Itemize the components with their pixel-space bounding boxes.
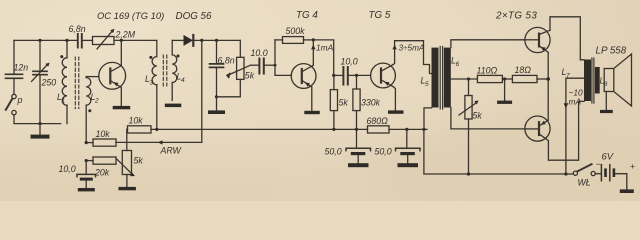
svg-text:4: 4 <box>181 77 185 84</box>
transistor TG4 <box>291 40 316 111</box>
transistor TG53 lower <box>525 116 550 141</box>
resistor 5k (thermistor, bias) <box>459 79 482 174</box>
svg-text:DOG 56: DOG 56 <box>176 11 212 22</box>
svg-text:3: 3 <box>150 80 154 87</box>
wire diode to detector <box>195 39 241 41</box>
svg-text:5k: 5k <box>134 156 144 166</box>
capacitor 6,8n (series, top rail) <box>69 24 86 48</box>
ground (10,0 cap) <box>78 188 95 191</box>
label TG 4 <box>296 10 318 21</box>
node base feed <box>274 64 277 67</box>
svg-text:5: 5 <box>425 81 429 88</box>
node 110/18 <box>503 77 506 80</box>
node bus/L3 <box>155 128 158 131</box>
node 250 / rail <box>38 39 41 42</box>
node L5 bottom / supply drop <box>422 128 425 131</box>
resistor 330k <box>353 75 381 129</box>
resistor 10k (upper, in supply bus) <box>127 116 157 134</box>
transformer T2 winding L5 <box>421 48 439 108</box>
transformer L7 primary <box>562 60 592 102</box>
current arrow 3÷5mA <box>392 44 425 53</box>
switch WŁ <box>573 164 595 187</box>
diode DOG 56 <box>176 11 212 46</box>
node thermistor / bottom bus <box>467 172 470 175</box>
core L7 <box>592 58 594 103</box>
node 50,0 #2 <box>405 128 408 131</box>
MIDDLE AND RIGHT SECTIONS INSERTED BELOW <box>155 10 573 174</box>
wire TG4 collector top to coupling <box>313 40 333 76</box>
wire L6 tap bias row <box>451 78 478 80</box>
ground (5k pot) <box>118 187 135 190</box>
svg-text:OC 169 (TG 10): OC 169 (TG 10) <box>97 10 164 21</box>
label 2×TG 53 <box>495 11 537 22</box>
svg-text:mA: mA <box>569 97 582 107</box>
ground (Q1 emitter) <box>113 106 131 109</box>
capacitor 10.0 (coupling to TG4) <box>251 48 276 74</box>
wire L2 to Q1 base <box>86 76 99 78</box>
svg-text:330k: 330k <box>361 98 381 108</box>
loudspeaker LP 558 <box>596 46 632 110</box>
transformer T2 winding L6 <box>444 48 460 108</box>
center tap wire + current arrow ~10mA <box>564 78 584 174</box>
svg-text:12n: 12n <box>14 63 29 73</box>
node 330k/base TG5 <box>355 74 358 77</box>
wire L5 bottom to bus <box>424 108 432 129</box>
svg-text:−: − <box>596 159 601 169</box>
svg-text:500k: 500k <box>286 26 306 36</box>
node 330k <box>355 128 358 131</box>
svg-text:110Ω: 110Ω <box>477 66 498 76</box>
inductor L2 (coupling winding) <box>86 77 99 143</box>
ground (speaker) <box>600 110 613 113</box>
svg-text:5k: 5k <box>245 71 255 81</box>
wire 10k-left down to 5k pot <box>126 129 128 150</box>
ground (tuning circuit) <box>31 124 50 139</box>
node L2/10k <box>85 141 88 144</box>
ferrite rod (dashed core) <box>75 57 79 109</box>
wire supply drop to bottom bus <box>424 129 573 174</box>
node center tap / bus <box>564 172 567 175</box>
inductor L4 <box>172 40 185 100</box>
svg-text:TG 5: TG 5 <box>369 10 391 21</box>
svg-text:2×TG 53: 2×TG 53 <box>495 11 537 22</box>
wire TG5 collector to L5 <box>395 41 432 74</box>
transformer L8 secondary <box>595 67 608 94</box>
svg-text:5k: 5k <box>473 111 483 121</box>
ground (TG5 emitter) <box>388 110 404 113</box>
resistor 5k (volume/regen pot, vertical) <box>117 151 144 187</box>
wire switch to bottom bus <box>14 115 61 124</box>
node thermistor <box>467 77 470 80</box>
ground (L4) <box>165 104 182 108</box>
svg-text:3÷5mA: 3÷5mA <box>399 44 425 53</box>
inductor L3 <box>145 40 157 129</box>
svg-text:TG 4: TG 4 <box>296 10 318 21</box>
battery 6V <box>595 151 635 190</box>
capacitor 6,8n (detector filter) <box>210 40 235 110</box>
svg-text:6V: 6V <box>602 151 614 162</box>
wire L4 top to diode <box>172 39 183 41</box>
svg-text:6,8n: 6,8n <box>69 24 86 34</box>
node Q1 collector / rail <box>120 39 123 42</box>
svg-text:250: 250 <box>41 78 57 88</box>
svg-text:680Ω: 680Ω <box>367 116 389 126</box>
svg-text:50,0: 50,0 <box>325 147 342 157</box>
label OC 169 (TG 10) <box>97 10 164 21</box>
transistor TG5 <box>371 41 396 111</box>
capacitor 50,0 (second) <box>375 129 421 163</box>
resistor 18Ω <box>512 65 548 83</box>
wire to TG4 base <box>275 40 292 76</box>
svg-text:6,8n: 6,8n <box>218 56 235 66</box>
current arrow 1mA <box>311 43 334 53</box>
node 6,8n <box>215 39 218 42</box>
node detector <box>215 95 218 98</box>
svg-text:10k: 10k <box>96 129 111 139</box>
wire lower collector to L7 bottom <box>548 101 584 160</box>
svg-text:1: 1 <box>62 98 66 105</box>
capacitor 250 (variable tuning) <box>32 40 57 123</box>
node 500k/collector <box>312 38 315 41</box>
ground (battery) <box>620 189 634 193</box>
inductor L1 (antenna coil) <box>57 40 67 123</box>
wire L6 top to upper base <box>451 40 525 48</box>
svg-text:20k: 20k <box>94 168 110 178</box>
node TG4 collector / 5k / cap <box>332 74 335 77</box>
svg-text:p: p <box>17 95 23 105</box>
label TG 5 <box>369 10 391 21</box>
resistor 10k (lower, AGC) <box>86 129 116 146</box>
resistor 680Ω (decoupling) <box>367 116 428 133</box>
ground (50,0 second) <box>398 163 419 167</box>
ground (bias row) <box>497 79 512 104</box>
svg-text:LP 558: LP 558 <box>596 46 627 57</box>
resistor 5k (volume pot) <box>217 40 255 96</box>
ground (50,0 first) <box>348 163 369 167</box>
transistor TG53 upper <box>525 27 550 52</box>
capacitor 12n <box>6 63 29 79</box>
resistor 20k <box>86 157 116 178</box>
core T2 <box>440 47 442 110</box>
wire L6 bottom to lower base <box>451 108 525 129</box>
capacitor 10,0 (coupling TG4-TG5) <box>334 56 371 84</box>
svg-text:6: 6 <box>456 61 460 68</box>
wire <box>82 39 92 41</box>
resistor 500k (bias) <box>275 26 313 43</box>
node 20k <box>85 159 88 162</box>
node ARW takeoff <box>200 39 203 42</box>
node L1 / rail <box>65 39 68 42</box>
svg-text:2,2M: 2,2M <box>115 30 136 40</box>
svg-text:18Ω: 18Ω <box>515 65 532 75</box>
svg-text:10,0: 10,0 <box>341 56 358 66</box>
core (dashed) <box>163 55 167 86</box>
svg-text:WŁ: WŁ <box>578 178 591 188</box>
node bottom-left <box>38 122 41 125</box>
wire upper collector to L7 top <box>550 17 584 60</box>
svg-text:1mA: 1mA <box>316 43 334 53</box>
svg-text:10k: 10k <box>129 116 144 126</box>
wire rail to L3 corner <box>114 39 157 41</box>
resistor 110Ω <box>477 66 513 83</box>
node emitters/18Ω <box>546 77 550 81</box>
wire top rail left <box>14 39 77 41</box>
svg-text:50,0: 50,0 <box>375 147 392 157</box>
svg-text:ARW: ARW <box>160 146 182 156</box>
wire left vertical from rail <box>13 40 15 73</box>
svg-text:10.0: 10.0 <box>251 48 268 58</box>
svg-text:+: + <box>630 161 635 171</box>
ground (TG4 emitter) <box>304 111 320 114</box>
ARW feedback line <box>116 40 202 155</box>
wire <box>13 79 15 94</box>
svg-text:5k: 5k <box>339 98 349 108</box>
capacitor 10,0 (electrolytic, AGC filter) <box>59 161 96 188</box>
svg-text:2: 2 <box>94 98 99 105</box>
supply bus (front end) <box>157 128 368 130</box>
resistor 5k (TG4 load) <box>330 75 348 129</box>
svg-text:10,0: 10,0 <box>59 164 76 174</box>
emitters wire <box>547 52 549 120</box>
resistor 2,2M (variable) <box>93 29 136 49</box>
ground (detector) <box>208 110 225 114</box>
switch p <box>6 94 23 115</box>
transistor Q1 OC169 <box>99 40 126 106</box>
node 5k load <box>332 128 335 131</box>
capacitor 50,0 (first) <box>325 129 371 163</box>
